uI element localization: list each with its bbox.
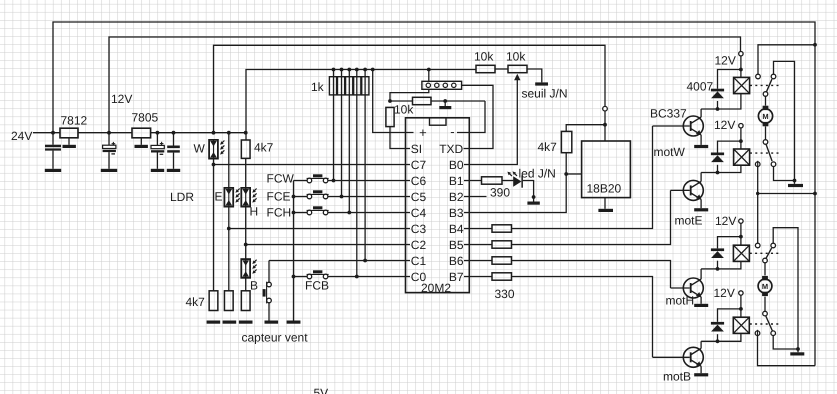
svg-text:LDR: LDR — [170, 190, 194, 204]
wire 10k to pot — [495, 68, 508, 70]
resistor resistor 330 #3 — [492, 257, 512, 264]
svg-text:7812: 7812 — [61, 114, 88, 128]
wire FCE row / C5 net — [294, 196, 308, 198]
svg-text:H: H — [250, 205, 259, 219]
wire collector B — [700, 341, 702, 348]
junction serial node — [388, 99, 392, 103]
resistor R 4k7 lower E — [224, 291, 233, 311]
junction E/C3 — [227, 227, 231, 231]
wire B5 to 330 — [464, 244, 492, 246]
ground wind sensor — [265, 321, 279, 324]
contact K1 (upper motor top) — [756, 74, 776, 96]
resistor resistor 330 #4 — [492, 273, 512, 280]
wire 24V rail top — [53, 22, 815, 366]
wire diode H top link — [718, 237, 741, 249]
wire contact to motor M1 — [765, 96, 767, 105]
junction 5V rail tap — [340, 68, 344, 72]
svg-text:7805: 7805 — [132, 111, 159, 125]
wire upper motor branch: top-right contact to ground rail — [774, 61, 795, 183]
ground C4 — [167, 169, 180, 172]
ground lower contacts — [790, 352, 804, 355]
resistor potentiometer 10k seuil — [508, 65, 527, 72]
wire B3 to 18B20 data — [464, 153, 566, 213]
capacitor C4 5V — [167, 133, 180, 169]
resistor resistor 10k top — [476, 65, 495, 72]
svg-text:C1: C1 — [411, 254, 427, 268]
resistor resistor 330 #1 — [492, 225, 512, 232]
junction bus/FCH — [292, 211, 296, 215]
svg-text:10k: 10k — [474, 50, 494, 64]
junction 24V mid — [813, 192, 817, 196]
wire 1k pullup to C1 — [364, 70, 366, 261]
contact mech link K1 — [750, 84, 781, 86]
wire 7805 ground stub — [140, 138, 142, 145]
resistor network 1k (5 elements) — [329, 77, 369, 95]
junction 5V rail tap — [355, 68, 359, 72]
wire 330 to motH base — [512, 261, 671, 289]
terminal 5V 18B20 — [603, 106, 608, 111]
wire W LDR column — [213, 159, 215, 291]
IC notch — [430, 118, 447, 125]
wire 5V to IC plus pin — [373, 70, 414, 133]
junction main rail — [107, 131, 111, 135]
wire coil B bottom — [701, 333, 741, 341]
LDR H — [241, 188, 250, 207]
wire 7812 ground stub — [68, 138, 70, 145]
junction led ground — [532, 195, 536, 199]
transistor Q4 motB — [683, 347, 703, 367]
wire 12V terminal to coil W — [740, 56, 742, 77]
svg-text:motW: motW — [654, 145, 686, 159]
wire serial ground segment — [431, 100, 485, 102]
transistor Q3 motH — [683, 278, 703, 298]
IC U1 PICAXE 20M2 — [406, 118, 470, 293]
diode D3 4007 — [711, 248, 724, 258]
light arrows for LDR H — [252, 189, 256, 203]
wire C2 net — [246, 244, 410, 246]
LED led J/N — [513, 175, 523, 187]
wire FCW row / C6 net — [294, 180, 308, 182]
ground 7805 tab — [135, 145, 148, 148]
ground C2 — [101, 169, 117, 172]
wire 4k7 to H LDR — [245, 158, 247, 188]
svg-text:C2: C2 — [411, 238, 427, 252]
junction main rail — [51, 131, 55, 135]
svg-text:20M2: 20M2 — [421, 281, 451, 295]
resistor resistor 390 — [482, 177, 503, 184]
ground lower 3 — [239, 321, 253, 324]
svg-text:B4: B4 — [449, 222, 464, 236]
junction serial ground — [443, 99, 447, 103]
wire 5V drop to header pin1 — [428, 70, 430, 82]
junction diodeH bottom — [716, 267, 720, 271]
junction lower contact ground — [796, 347, 800, 351]
resistor resistor 4k7 18B20 pullup — [561, 131, 571, 152]
svg-text:12V: 12V — [714, 286, 735, 300]
switch FCH — [307, 206, 329, 215]
contact mech link K4 — [750, 323, 780, 325]
svg-text:12V: 12V — [111, 92, 132, 106]
svg-text:4k7: 4k7 — [186, 295, 206, 309]
wire 5V rail upper — [214, 45, 606, 132]
svg-text:TXD: TXD — [439, 142, 463, 156]
svg-text:B1: B1 — [449, 174, 464, 188]
wire diode E top link — [718, 141, 741, 152]
wire serial node — [390, 100, 413, 102]
wire motH base — [671, 287, 690, 289]
svg-text:12V: 12V — [714, 118, 735, 132]
terminal 12V K1 — [739, 52, 743, 56]
wire emitter H — [700, 297, 702, 304]
junction FCE/pullup — [340, 195, 344, 199]
junction H/C2 — [244, 243, 248, 247]
svg-text:1k: 1k — [311, 80, 325, 94]
ground 7812 tab — [63, 145, 76, 148]
wire coil W bottom — [701, 94, 741, 109]
svg-text:4007: 4007 — [687, 80, 714, 94]
wire contact to motor M2 — [764, 263, 766, 276]
svg-text:C7: C7 — [411, 158, 427, 172]
resistor resistor 10k serial — [413, 97, 432, 104]
svg-text:4k7: 4k7 — [538, 140, 558, 154]
junction bus/FCE — [292, 195, 296, 199]
svg-text:B6: B6 — [449, 254, 464, 268]
wire 18B20 ground stub — [604, 198, 606, 209]
wire 330 to motW base — [512, 126, 653, 229]
junction coilW top — [739, 68, 743, 72]
wire 330 to motB base — [512, 277, 653, 358]
junction diodeE bottom — [716, 171, 720, 175]
wire 1k pullup to FCE/C5 — [341, 70, 343, 197]
junction main rail — [156, 131, 160, 135]
wire 24V branch to upper contact — [758, 45, 815, 74]
junction bus/FCB — [292, 275, 296, 279]
ground Q4 — [694, 373, 708, 376]
wire 1k pullup to FCH/C4 — [348, 70, 350, 213]
wire TXD to header pin4 — [462, 85, 493, 148]
wire 330 to motE base — [512, 190, 671, 244]
light arrows for LDR W — [220, 141, 224, 155]
junction data/pullup — [564, 172, 568, 176]
wire main rail 5V section — [151, 132, 246, 134]
junction main rail — [227, 131, 231, 135]
wire emitter W — [700, 135, 702, 145]
relay coil K1 W — [734, 77, 750, 93]
wire motB base — [653, 356, 690, 358]
svg-text:24V: 24V — [11, 129, 32, 143]
svg-text:B3: B3 — [449, 206, 464, 220]
ground LED — [527, 202, 539, 205]
wire motW base — [653, 125, 690, 127]
terminal 12V K2 — [739, 124, 743, 128]
svg-text:5V: 5V — [314, 386, 329, 394]
wire coil H bottom — [701, 261, 741, 269]
wire 5V rail to pullups — [246, 70, 476, 140]
resistor resistor 330 #2 — [492, 241, 512, 248]
wire B2 stub — [464, 196, 487, 198]
junction FCH/pullup — [347, 211, 351, 215]
svg-text:B0: B0 — [449, 158, 464, 172]
junction upper contact ground — [793, 179, 797, 183]
ground Q1 — [694, 145, 708, 148]
svg-text:B7: B7 — [449, 270, 464, 284]
regulator 7805 — [132, 128, 151, 138]
junction FCW/pullup — [332, 179, 336, 183]
wire serial ground stub — [444, 101, 446, 106]
ground pot — [535, 82, 548, 85]
junction C1/pullup — [363, 259, 367, 263]
ground Q3 — [694, 304, 708, 307]
svg-text:+: + — [419, 125, 427, 140]
ground lower 1 — [207, 321, 221, 324]
svg-text:FCB: FCB — [305, 279, 329, 293]
wire emitter B — [700, 366, 702, 373]
wire C7 net — [214, 164, 411, 166]
ground FC bus — [287, 321, 301, 324]
capacitor C3 5V electrolytic — [151, 133, 164, 169]
wire E LDR top — [228, 133, 230, 188]
svg-text:FCH: FCH — [267, 206, 292, 220]
svg-text:W: W — [194, 142, 206, 156]
wire diode W bottom link — [717, 101, 719, 109]
ground lower 2 — [223, 321, 237, 324]
svg-text:FCW: FCW — [267, 172, 295, 186]
LDR E — [224, 188, 233, 207]
switch FCE — [307, 190, 329, 199]
svg-text:E: E — [215, 190, 223, 204]
svg-text:M: M — [762, 112, 768, 121]
resistor R 4k7 lower W — [209, 291, 218, 311]
wire B6 to 330 — [464, 260, 492, 262]
wire B7 to 330 — [464, 276, 492, 278]
contact K4 (lower motor bottom) — [755, 311, 775, 336]
svg-text:12V: 12V — [715, 214, 736, 228]
wire B0 to potentiometer wiper — [464, 80, 517, 165]
light arrows for LDR E — [235, 189, 239, 203]
relay coil K4 B — [733, 317, 749, 333]
wire diode B top link — [718, 309, 741, 322]
wire collector W — [700, 109, 702, 117]
svg-text:-: - — [450, 124, 454, 139]
capacitor C1 input — [45, 133, 61, 169]
svg-text:seuil J/N: seuil J/N — [522, 87, 568, 101]
svg-text:B: B — [250, 279, 258, 293]
wire B1 to 390 — [464, 180, 482, 182]
resistor R 4k7 pullup W column — [241, 140, 250, 158]
ground serial — [439, 106, 451, 109]
svg-text:FCE: FCE — [267, 190, 291, 204]
sensor 18B20 — [582, 141, 631, 198]
wire 390 to LED — [502, 180, 513, 182]
wire motor M2 to pivot — [764, 297, 766, 312]
relay coil K3 H — [733, 245, 749, 261]
junction header feed — [427, 68, 431, 72]
wire B4 to 330 — [464, 228, 492, 230]
svg-text:12V: 12V — [715, 54, 736, 68]
junction coilH top — [739, 235, 743, 239]
svg-text:4k7: 4k7 — [254, 141, 274, 155]
svg-text:18B20: 18B20 — [587, 182, 622, 196]
wire lower bottom-right contact to ground — [773, 336, 798, 350]
wire 5V to 18B20 below terminal — [604, 111, 606, 141]
junction diodeW bottom — [716, 107, 720, 111]
junction 5V rail tap — [332, 68, 336, 72]
potentiometer wiper arrow — [514, 74, 520, 81]
wire collector E — [700, 173, 702, 182]
junction diodeB bottom — [716, 339, 720, 343]
LDR W — [209, 140, 218, 159]
junction 18B20 supply — [603, 123, 607, 127]
capacitor C2 12V electrolytic — [103, 133, 116, 169]
wire pot to ground — [527, 69, 542, 82]
wire diode W top link — [718, 70, 741, 89]
wire main rail 24V input — [33, 132, 60, 134]
contact K3 (lower motor top) — [755, 243, 775, 263]
contact mech link K2 — [750, 152, 781, 154]
wire LED cathode to ground — [523, 181, 534, 202]
junction main rail — [172, 131, 176, 135]
wire 24V bottom return — [758, 336, 816, 366]
ground Q2 — [694, 208, 708, 211]
wire FCB row / C0 net — [294, 276, 308, 278]
contact mech link K3 — [750, 252, 780, 254]
LDR B — [241, 259, 250, 278]
wire E LDR bottom column — [228, 207, 230, 291]
transistor Q1 motW — [683, 116, 703, 136]
contact K2 (upper motor bottom) — [755, 140, 775, 168]
wire lower motor branch: top-right contact to ground rail — [773, 228, 798, 353]
junction 5V rail tap — [347, 68, 351, 72]
wire C3 net — [229, 228, 410, 230]
wire main rail 12V section — [78, 132, 132, 134]
svg-text:C4: C4 — [411, 206, 427, 220]
wire wind sensor to ground — [268, 303, 270, 321]
junction 5V rail tap — [371, 68, 375, 72]
regulator 7812 — [60, 128, 78, 138]
svg-text:10k: 10k — [506, 50, 526, 64]
wire emitter E — [700, 199, 702, 208]
wire collector H — [700, 269, 702, 279]
ground C3 — [151, 169, 164, 172]
wire 12V terminal to coil E — [740, 128, 742, 149]
junction 5V rail tap — [363, 68, 367, 72]
light arrows LED — [507, 171, 517, 176]
wire C1 to wind sensor — [268, 261, 270, 283]
svg-text:SI: SI — [411, 142, 422, 156]
ground 18B20 — [598, 209, 613, 212]
wire 10k to SI pin — [390, 127, 410, 149]
svg-text:B5: B5 — [449, 238, 464, 252]
svg-text:M: M — [762, 282, 768, 291]
svg-text:capteur vent: capteur vent — [242, 331, 309, 345]
junction main rail — [212, 131, 216, 135]
transistor Q2 motE — [683, 180, 703, 200]
svg-text:motH: motH — [666, 294, 695, 308]
diode D1 4007 — [711, 89, 724, 99]
svg-text:led J/N: led J/N — [519, 167, 556, 181]
switch capteur vent — [263, 282, 272, 304]
wire B LDR bottom — [245, 278, 247, 291]
junction 24V branch — [813, 43, 817, 47]
wire 12V terminal to coil H — [740, 223, 742, 245]
switch FCB — [307, 270, 329, 279]
junction coilE top — [739, 139, 743, 143]
motor M1 — [758, 106, 772, 127]
wire diode B bottom link — [717, 334, 719, 341]
svg-text:390: 390 — [490, 186, 510, 200]
programming header CON1 — [422, 81, 462, 89]
svg-text:C6: C6 — [411, 174, 427, 188]
relay coil K2 E — [734, 149, 750, 165]
wire 1k pullup to FCB/C0 — [356, 70, 358, 277]
junction coilB top — [739, 307, 743, 311]
terminal 12V K4 — [739, 291, 743, 295]
junction main rail — [244, 131, 248, 135]
wire data to 18B20 — [566, 173, 581, 175]
light arrows for LDR B — [252, 260, 256, 274]
svg-text:motE: motE — [675, 214, 703, 228]
svg-text:330: 330 — [495, 287, 515, 301]
wire 1k pullup to FCW/C6 — [333, 70, 335, 181]
wire motE base — [671, 189, 690, 191]
diode D4 4007 — [711, 322, 724, 332]
diode D2 4007 — [711, 153, 724, 163]
junction contact chain — [756, 192, 759, 195]
ground C1 — [45, 169, 61, 172]
wire 24V link mid — [758, 193, 815, 195]
resistor R 4k7 lower H/B — [241, 291, 250, 311]
ground upper contacts — [788, 184, 803, 187]
wire 0V to IC minus pin — [457, 101, 485, 133]
resistor resistor 10k SI — [386, 107, 394, 126]
wire header pin1 to serial node — [390, 89, 429, 101]
wire coil E bottom — [701, 165, 741, 172]
wire 12V terminal to coil B — [740, 295, 742, 317]
wire 12V rail — [109, 37, 741, 133]
wire H LDR bottom — [245, 207, 247, 259]
wire FC switch bus — [293, 181, 295, 321]
svg-text:C3: C3 — [411, 222, 427, 236]
svg-text:10k: 10k — [394, 103, 414, 117]
terminal 12V K3 — [739, 219, 743, 223]
svg-text:B2: B2 — [449, 190, 464, 204]
wire C1 net — [269, 260, 410, 262]
junction W/C7 — [212, 163, 216, 167]
svg-text:motB: motB — [663, 370, 691, 384]
switch FCW — [307, 174, 329, 183]
junction FCB/pullup — [355, 275, 359, 279]
wire FCH row / C4 net — [294, 212, 308, 214]
svg-text:BC337: BC337 — [650, 107, 687, 121]
svg-text:C5: C5 — [411, 190, 427, 204]
wire diode H bottom link — [717, 261, 719, 269]
wire diode E bottom link — [717, 165, 719, 173]
wire 4k7 pullup top — [566, 125, 605, 132]
motor M2 — [758, 276, 772, 296]
wire upper chain BL circle down — [757, 167, 759, 244]
wire upper bottom-right contact to ground rail — [774, 167, 795, 181]
wire motor M1 to pivot — [765, 126, 767, 139]
